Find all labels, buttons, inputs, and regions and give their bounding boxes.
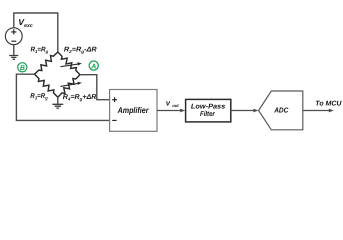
wire Vexc bottom to ground bbox=[13, 45, 15, 56]
node A bbox=[89, 61, 98, 70]
wire node A to amplifier non-inverting input bbox=[80, 75, 110, 100]
wire ADC output To MCU bbox=[303, 100, 343, 112]
resistor R1 value R1=Rg bbox=[31, 47, 58, 75]
wire amplifier output Vout to low-pass filter bbox=[157, 100, 185, 112]
resistor R2 value R2=Rg-dR (variable, arrow) bbox=[58, 47, 97, 75]
wire Vexc to bridge top node bbox=[14, 13, 58, 52]
svg-text:Amplifier: Amplifier bbox=[117, 105, 149, 115]
svg-text:R4=Rg+ΔR: R4=Rg+ΔR bbox=[63, 94, 97, 102]
svg-text:R1=Rg: R1=Rg bbox=[31, 47, 49, 55]
svg-text:out: out bbox=[172, 103, 179, 108]
wire bridge bottom to ground bbox=[57, 97, 59, 104]
svg-text:A: A bbox=[90, 63, 96, 70]
svg-text:ADC: ADC bbox=[273, 105, 289, 114]
svg-text:Low-Pass: Low-Pass bbox=[191, 104, 225, 111]
ADC block bbox=[259, 91, 303, 130]
node B bbox=[18, 63, 27, 72]
svg-text:Filter: Filter bbox=[200, 110, 216, 118]
op-amp amplifier block bbox=[110, 90, 157, 132]
ground (supply) bbox=[9, 56, 18, 60]
svg-text:R2=Rg-ΔR: R2=Rg-ΔR bbox=[64, 47, 97, 55]
svg-text:V: V bbox=[166, 100, 171, 107]
svg-text:To MCU: To MCU bbox=[315, 100, 342, 107]
resistor R4 value R4=Rg+dR (variable, arrow) bbox=[58, 75, 97, 102]
voltage source Vexc bbox=[5, 17, 32, 44]
resistor R3 value R3=Rg bbox=[30, 74, 58, 100]
svg-text:exc: exc bbox=[24, 23, 33, 29]
svg-text:B: B bbox=[20, 65, 25, 72]
wire low-pass filter to ADC bbox=[231, 109, 259, 113]
wire node B to amplifier inverting input bbox=[16, 74, 109, 120]
ground (bridge) bbox=[52, 104, 63, 108]
low-pass filter block bbox=[186, 99, 231, 122]
svg-text:R3=Rg: R3=Rg bbox=[30, 93, 48, 101]
